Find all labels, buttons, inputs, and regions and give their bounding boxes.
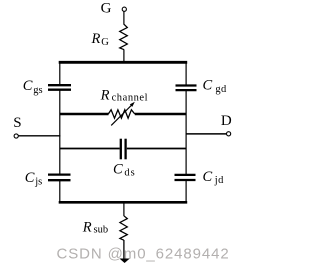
wire D	[186, 133, 227, 135]
wire RG to gate rail	[123, 49, 125, 62]
wire G to RG	[123, 11, 125, 24]
resistor Rsub	[120, 216, 127, 240]
wire rail to Rsub	[123, 202, 125, 216]
svg-text:CSDN @m0_62489442: CSDN @m0_62489442	[57, 246, 230, 263]
svg-text:R: R	[100, 87, 110, 103]
wire channel row right	[135, 113, 186, 116]
terminal substrate arrow	[119, 259, 129, 264]
wire right vertical upper	[185, 61, 187, 85]
capacitor Cgd	[176, 86, 197, 91]
svg-text:C: C	[23, 78, 33, 94]
svg-text:C: C	[203, 169, 213, 185]
svg-text:G: G	[101, 37, 109, 48]
terminal G	[122, 7, 126, 11]
svg-text:sub: sub	[94, 225, 109, 236]
wire left vertical upper	[59, 61, 61, 84]
svg-text:gs: gs	[33, 85, 42, 96]
resistor Rchannel	[108, 102, 135, 126]
wire right vertical lower	[185, 181, 187, 203]
svg-text:G: G	[101, 1, 112, 17]
svg-text:gd: gd	[215, 84, 227, 95]
svg-text:js: js	[34, 177, 42, 188]
terminal S	[14, 134, 18, 138]
capacitor Cjs	[48, 175, 71, 181]
svg-text:jd: jd	[214, 175, 224, 186]
svg-text:R: R	[91, 31, 101, 47]
svg-text:D: D	[221, 113, 232, 129]
wire channel row left	[60, 113, 109, 116]
wire left vertical lower	[59, 181, 61, 203]
svg-text:C: C	[203, 78, 213, 94]
terminal D	[227, 132, 231, 136]
capacitor Cds	[60, 139, 186, 160]
svg-text:R: R	[82, 220, 92, 236]
resistor RG	[120, 24, 128, 49]
svg-text:C: C	[113, 161, 123, 177]
wire Rsub to substrate terminal	[123, 240, 125, 260]
svg-text:ds: ds	[124, 167, 135, 178]
wire bottom rail	[59, 201, 188, 204]
capacitor Cjd	[175, 175, 196, 180]
capacitor Cgs	[48, 85, 71, 90]
svg-text:C: C	[25, 170, 35, 186]
wire left vertical middle	[59, 90, 61, 174]
wire top gate rail	[59, 61, 188, 64]
wire right vertical middle	[185, 91, 187, 175]
svg-text:S: S	[13, 115, 21, 131]
svg-text:channel: channel	[112, 93, 149, 104]
wire S	[18, 135, 60, 137]
